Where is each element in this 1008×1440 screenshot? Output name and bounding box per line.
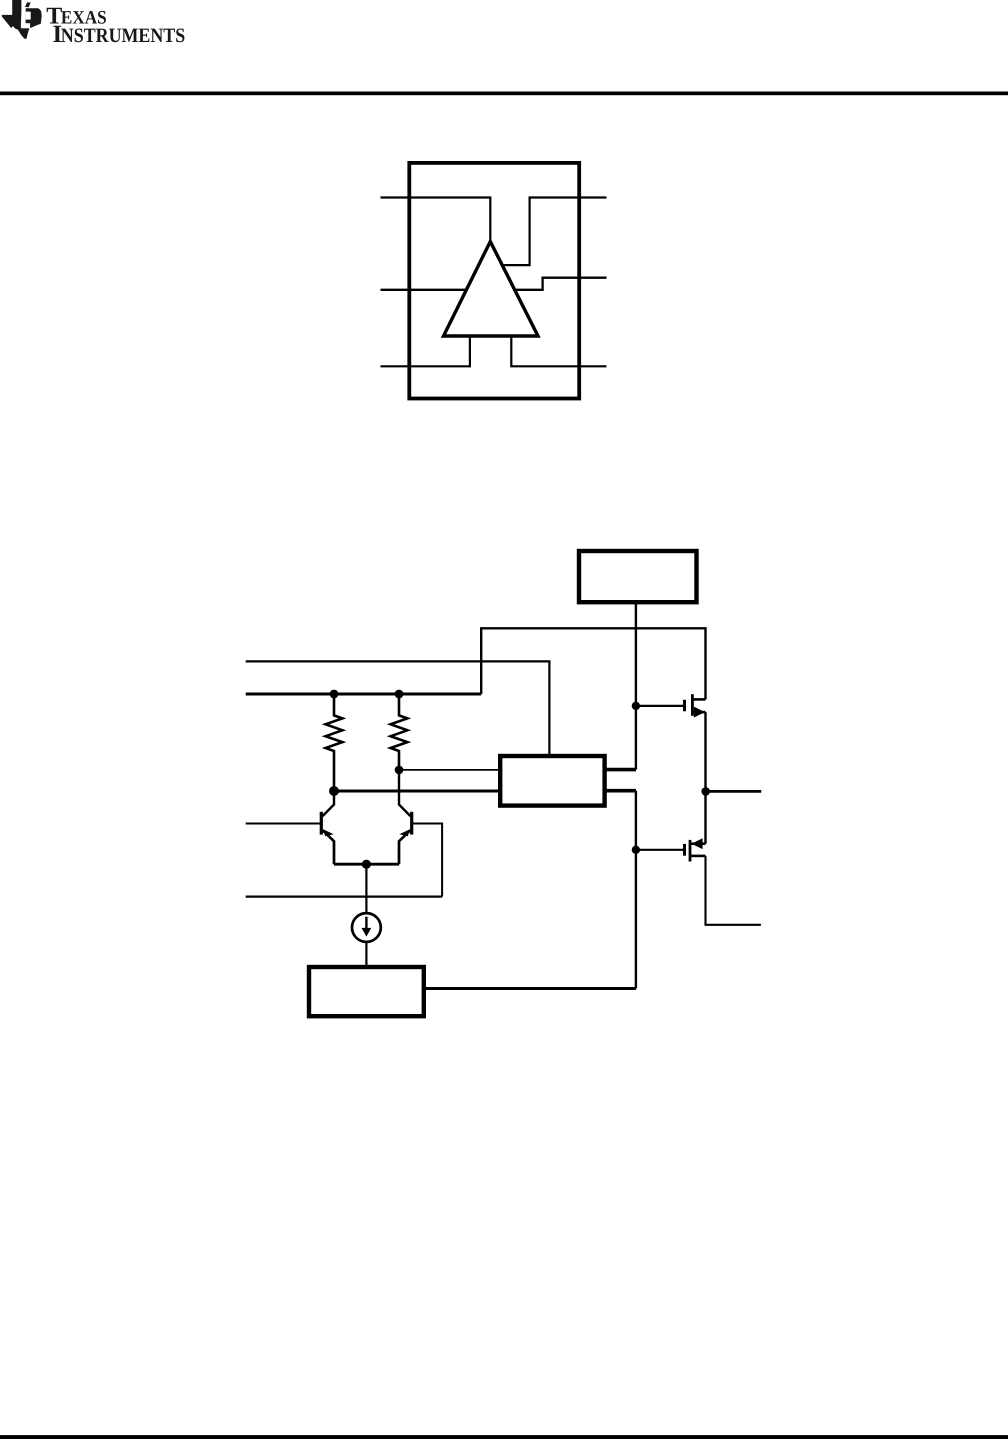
wire input bottom <box>246 895 442 897</box>
wire output node to M2 drain <box>704 791 706 843</box>
middle box B2 <box>500 756 604 806</box>
node dot on line B right <box>395 690 404 699</box>
wire R1 to box B2 (thick) <box>334 790 500 793</box>
MOSFET M2 gate bar <box>683 844 686 856</box>
wire emitters join <box>334 863 399 866</box>
pin 4 lead (middle) <box>381 278 607 290</box>
Q1 emitter arrow <box>324 830 333 837</box>
TI logo Texas-state glyph <box>2 0 42 39</box>
node dot on line B left <box>330 690 339 699</box>
transistor Q2 base wire <box>412 824 442 897</box>
MOSFET M2 channel bar <box>689 840 692 862</box>
resistor R2 <box>391 694 408 770</box>
MOSFET M1 source lead <box>692 698 705 701</box>
pin 2 lead (bottom-left) <box>381 336 470 366</box>
M1 arrow <box>694 707 705 718</box>
pin 1 lead (top-left) <box>381 198 491 242</box>
transistor Q2 base bar <box>410 812 413 835</box>
wire net2 vertical <box>635 791 637 989</box>
MOSFET M2 gate wire <box>636 849 683 851</box>
node dot output <box>701 787 710 796</box>
op-amp U1 triangle <box>444 242 539 337</box>
wire M1 drain down <box>704 712 706 791</box>
MOSFET M1 gate bar <box>683 700 686 712</box>
wire M2 source down and out <box>706 856 761 925</box>
wire tail to current source <box>365 864 367 913</box>
wire top rail <box>481 628 705 699</box>
wire current source to box B3 <box>365 942 367 968</box>
transistor Q2 emitter <box>399 830 410 864</box>
node dot M2 gate <box>632 846 640 854</box>
header rule <box>0 92 1008 96</box>
wire supply line B <box>246 693 482 696</box>
node dot R1 bottom <box>329 786 339 796</box>
transistor Q1 base wire <box>246 823 322 825</box>
node dot tail <box>362 860 371 869</box>
pin 5 lead (top-right) <box>503 198 607 266</box>
svg-text:NSTRUMENTS: NSTRUMENTS <box>61 25 185 47</box>
current source I1 <box>352 913 381 942</box>
wire box B2 upper stub <box>605 768 636 772</box>
transistor Q2 collector <box>399 770 410 816</box>
Q2 emitter arrow <box>399 830 408 837</box>
package outline <box>409 163 579 399</box>
M2 arrow <box>691 838 702 849</box>
MOSFET M1 drain lead <box>692 711 705 714</box>
bottom box B3 <box>309 967 424 1016</box>
wire input A <box>246 661 550 756</box>
wire box B2 lower stub <box>605 789 636 793</box>
MOSFET M2 source lead <box>690 855 706 858</box>
MOSFET M2 drain lead <box>690 842 706 845</box>
footer rule <box>0 1435 1008 1439</box>
node dot M1 gate <box>632 702 640 710</box>
pin 3 lead (bottom-right) <box>511 336 606 366</box>
top box B1 <box>579 551 697 602</box>
resistor R1 <box>326 694 343 791</box>
wire net1 vertical from box B1 <box>635 602 637 769</box>
wire R2 to box B2 (thin) <box>399 769 500 771</box>
MOSFET M1 channel bar <box>691 694 694 716</box>
node dot R2 bottom <box>395 766 404 775</box>
wire box B3 to gate net <box>426 987 636 990</box>
MOSFET M1 gate wire <box>636 705 683 707</box>
transistor Q1 base bar <box>320 812 323 835</box>
transistor Q1 collector <box>323 791 334 816</box>
wire output <box>706 790 762 793</box>
transistor Q1 emitter <box>323 830 334 864</box>
